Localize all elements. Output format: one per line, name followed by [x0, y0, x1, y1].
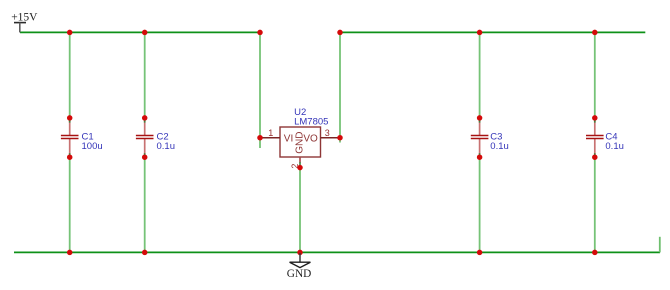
wire: regulator ground to rail: [299, 168, 301, 253]
wire: regulator input vertical: [259, 32, 261, 148]
svg-text:1: 1: [268, 128, 273, 138]
node: C4 on +15V rail: [592, 30, 598, 36]
svg-text:0.1u: 0.1u: [490, 141, 509, 152]
svg-text:GND: GND: [287, 268, 311, 280]
node: C2 on ground rail: [142, 250, 148, 256]
capacitor C4: [586, 118, 624, 157]
node: regulator input corner on rail: [257, 30, 263, 36]
pin 1 (VI) wire: [260, 137, 280, 139]
wire: C3 lower vertical: [479, 156, 481, 253]
node: C1 on +15V rail: [67, 30, 73, 36]
node: C2 top pin junction: [142, 115, 148, 121]
svg-text:100u: 100u: [82, 141, 103, 152]
capacitor C2: [136, 118, 175, 157]
capacitor C1: [61, 118, 103, 157]
svg-text:0.1u: 0.1u: [605, 141, 624, 152]
svg-text:VO: VO: [303, 134, 318, 145]
pin 2 (GND) wire: [299, 157, 301, 163]
wire: top rail (right segment, regulator output): [340, 31, 645, 33]
wire: C1 lower vertical: [69, 156, 71, 253]
wire: C1 upper vertical: [69, 32, 71, 119]
node: GND junction on ground rail: [297, 250, 303, 256]
node: C3 top pin junction: [477, 115, 483, 121]
node: C4 bottom pin junction: [592, 154, 598, 160]
svg-text:0.1u: 0.1u: [157, 141, 176, 152]
node: regulator output junction: [337, 135, 343, 141]
wire: C4 upper vertical: [594, 32, 596, 119]
node: C4 top pin junction: [592, 115, 598, 121]
node: C2 bottom pin junction: [142, 154, 148, 160]
wire: bottom ground rail: [14, 251, 660, 253]
svg-text:VI: VI: [284, 134, 293, 145]
wire: C4 lower vertical: [594, 156, 596, 253]
pin 3 (VO) wire: [321, 137, 341, 139]
node: C3 bottom pin junction: [477, 154, 483, 160]
wire: regulator output vertical: [339, 32, 341, 142]
node: C3 on ground rail: [477, 250, 483, 256]
svg-text:GND: GND: [295, 132, 306, 154]
wire: +15V top rail (left segment): [20, 31, 260, 33]
wire: C3 upper vertical: [479, 32, 481, 119]
svg-text:+15V: +15V: [11, 12, 38, 24]
ground: [287, 253, 311, 280]
node: C4 on ground rail: [592, 250, 598, 256]
regulator U2 LM7805: [280, 107, 328, 157]
node: C1 top pin junction: [67, 115, 73, 121]
svg-text:LM7805: LM7805: [294, 116, 328, 127]
node: C3 on +15V rail: [477, 30, 483, 36]
wire: C2 lower vertical: [144, 156, 146, 253]
wire: bottom-right vertical stub: [659, 237, 661, 253]
power flag +15V: [11, 12, 38, 33]
node: C1 on ground rail: [67, 250, 73, 256]
svg-text:3: 3: [325, 128, 330, 138]
node: C2 on +15V rail: [142, 30, 148, 36]
node: regulator output corner on rail: [337, 30, 343, 36]
node: C1 bottom pin junction: [67, 154, 73, 160]
node: regulator input junction: [257, 135, 263, 141]
capacitor C3: [471, 118, 509, 157]
node: regulator ground pin junction: [297, 165, 303, 171]
wire: C2 upper vertical: [144, 32, 146, 119]
